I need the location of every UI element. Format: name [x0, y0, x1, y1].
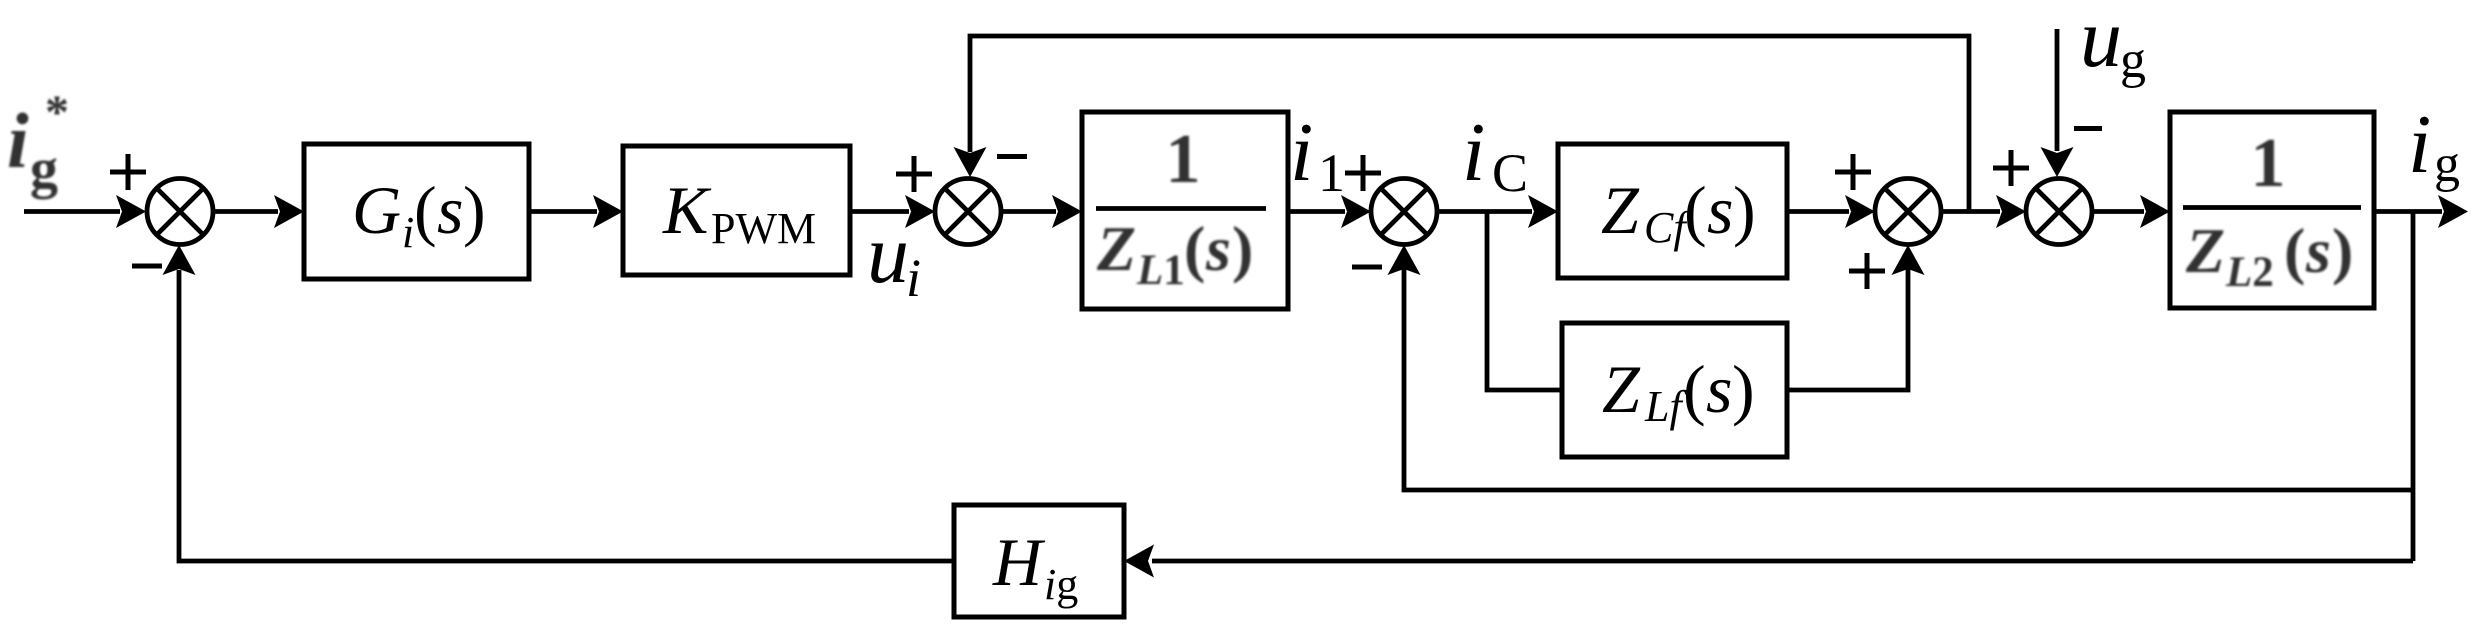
summing junction S3 [1371, 179, 1437, 245]
sign + at S4 left input [1835, 154, 1871, 190]
svg-text:1: 1 [1318, 143, 1345, 203]
wire S4 to summing junction S5 [1941, 209, 2000, 214]
svg-text:1: 1 [2251, 125, 2286, 202]
svg-text:Lf: Lf [1644, 382, 1687, 431]
svg-text:g: g [30, 138, 58, 200]
wire 1/ZL1 to summing junction S3 [1288, 209, 1345, 214]
svg-text:i: i [2408, 98, 2431, 191]
svg-text:u: u [2080, 0, 2122, 85]
block ZLf(s) [1562, 323, 1787, 457]
block Gi(s) [304, 144, 529, 279]
svg-text:s: s [437, 172, 463, 248]
svg-text:K: K [662, 172, 712, 248]
sign - at S2 top feedback [997, 154, 1027, 159]
svg-text:i: i [1462, 106, 1485, 199]
block 1/ZL1(s) [1082, 112, 1288, 309]
svg-text:1: 1 [1166, 121, 1201, 198]
node ig* input label [7, 86, 69, 200]
sign - at S1 feedback [132, 264, 162, 269]
wire S1 to block Gi [213, 209, 278, 214]
wire S5 to block 1/ZL2 [2092, 209, 2144, 214]
sign + at S4 bottom input [1849, 253, 1885, 289]
wire ZCf to summing junction S4 [1787, 209, 1849, 214]
svg-text:(: ( [1683, 351, 1706, 427]
summing junction S1 [147, 179, 213, 245]
block ZCf(s) [1558, 144, 1787, 278]
svg-text:Z: Z [1096, 213, 1136, 284]
wire KPWM to summing junction S2 [850, 209, 909, 214]
svg-text:PWM: PWM [711, 204, 816, 253]
sign + at S2 input [896, 156, 932, 192]
svg-text:u: u [867, 208, 909, 301]
svg-text:C: C [1492, 143, 1528, 203]
block KPWM [623, 146, 850, 275]
svg-text:i: i [402, 208, 414, 257]
svg-text:): ) [1733, 172, 1756, 248]
svg-text:ig: ig [1044, 560, 1078, 609]
svg-text:H: H [992, 524, 1046, 600]
wire output ig [2374, 209, 2442, 214]
svg-text:Z: Z [1601, 172, 1640, 248]
wire output pickoff down [2411, 212, 2416, 562]
svg-text:): ) [463, 172, 486, 248]
sign + at S3 input [1345, 155, 1381, 191]
svg-text:L2: L2 [2225, 249, 2274, 296]
svg-text:(: ( [1184, 213, 1205, 284]
sign + at S1 input [110, 154, 146, 190]
svg-text:s: s [1205, 213, 1231, 284]
sign - at S3 feedback [1352, 265, 1382, 270]
block Hig [954, 505, 1124, 617]
wire S2 to block 1/ZL1 [1001, 209, 1056, 214]
svg-text:Z: Z [1602, 351, 1641, 427]
wire Hig back to S1 [179, 270, 954, 561]
svg-text:g: g [2120, 32, 2146, 89]
svg-text:G: G [352, 172, 401, 248]
block 1/ZL2(s) [2170, 112, 2374, 308]
wire branch node to block ZLf [1487, 212, 1562, 391]
svg-text:i: i [906, 248, 921, 308]
wire input to summing junction S1 [24, 209, 120, 214]
svg-text:): ) [1232, 213, 1253, 284]
svg-text:): ) [1732, 351, 1755, 427]
sign - at ug input [2074, 126, 2102, 131]
svg-text:): ) [2332, 215, 2353, 286]
wire feedback to Hig [1152, 559, 2413, 564]
sign + at S5 input [1993, 150, 2029, 186]
summing junction S5 [2026, 179, 2092, 245]
svg-text:(: ( [2284, 215, 2305, 286]
svg-text:i: i [1290, 106, 1313, 199]
svg-text:g: g [2434, 136, 2460, 193]
summing junction S4 [1875, 179, 1941, 245]
svg-text:L1: L1 [1136, 247, 1185, 294]
svg-text:*: * [45, 86, 69, 139]
svg-text:s: s [2305, 215, 2331, 286]
svg-text:s: s [1706, 351, 1732, 427]
wire Gi to block KPWM [529, 209, 597, 214]
svg-text:Z: Z [2185, 215, 2225, 286]
svg-text:(: ( [414, 172, 437, 248]
summing junction S2 [935, 179, 1001, 245]
wire ZLf to S4 bottom [1787, 268, 1908, 390]
wire ug disturbance into S5 top [2055, 29, 2060, 151]
svg-text:i: i [7, 97, 29, 184]
wire S3 to block ZCf [1437, 209, 1532, 214]
wire top feedback from pickoff node to S2 [970, 36, 1969, 212]
svg-text:(: ( [1684, 172, 1707, 248]
wire feedback to S3 [1404, 269, 2413, 490]
svg-text:s: s [1707, 172, 1733, 248]
